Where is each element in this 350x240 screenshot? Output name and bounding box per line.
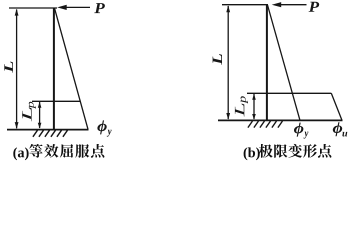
fig-a L dim down arrowhead: [15, 122, 19, 129]
fig-b Lp level line (top of plastic hinge): [247, 92, 331, 94]
fig-b Lp dimension line: [253, 94, 255, 119]
fig-a Lp level line: [32, 100, 81, 102]
fig-b L dim down arrowhead: [226, 113, 230, 120]
caption (b) prefix: [244, 147, 260, 160]
fig-b plastic hinge length label Lp: [235, 96, 248, 116]
fig-a L dimension line: [16, 10, 18, 129]
fig-b phi_u diagonal: [331, 93, 342, 120]
fig-b L dim up arrowhead: [226, 5, 230, 12]
fig-a height label L: [4, 62, 13, 73]
fig-b force P arrow shaft: [281, 4, 307, 6]
fig-b curvature diagonal to phi_y: [268, 5, 301, 120]
fig-a Lp dim down arrowhead: [38, 123, 42, 129]
fig-b ground hatching: [248, 121, 283, 128]
fig-a Lp dimension line: [39, 102, 41, 128]
fig-a force P arrow shaft: [66, 6, 90, 8]
fig-a ground hatching: [33, 130, 68, 137]
fig-a P arrowhead: [57, 5, 66, 10]
fig-a L dim up arrowhead: [15, 9, 19, 16]
fig-b load label P: [309, 2, 320, 12]
fig-b column: [266, 5, 268, 121]
fig-a column: [53, 8, 55, 130]
fig-a curvature diagonal to phi_y: [55, 8, 89, 129]
fig-b top line: [222, 4, 268, 6]
fig-a yield curvature label phi_y: [97, 120, 111, 136]
fig-b ultimate curvature label phi_u: [333, 122, 347, 136]
fig-a Lp dim up arrowhead: [38, 102, 42, 108]
fig-a base line: [7, 129, 89, 131]
fig-b height label L: [213, 54, 222, 65]
fig-b Lp dim up arrowhead: [252, 94, 256, 100]
fig-b P arrowhead: [272, 2, 282, 7]
fig-a top line: [9, 7, 57, 9]
fig-a load label P: [94, 3, 105, 13]
fig-b base line: [218, 119, 343, 121]
fig-b yield curvature label phi_y: [294, 123, 308, 139]
fig-b Lp dim down arrowhead: [252, 114, 256, 120]
caption (b) text 极限变形点: [259, 144, 332, 158]
fig-a plastic hinge length label Lp: [22, 102, 36, 122]
caption (a) prefix: [13, 147, 28, 160]
caption (a) text 等效屈服点: [29, 144, 104, 158]
fig-b L dimension line: [227, 6, 229, 119]
